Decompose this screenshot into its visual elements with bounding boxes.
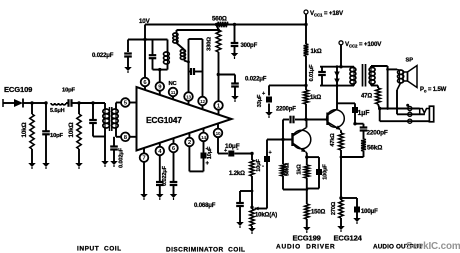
riser pin12 [202,39,204,97]
rail 10V [145,24,217,26]
wire tank1 top [145,39,168,41]
inductor tank1 [167,40,169,53]
node rail b [233,23,236,26]
wire sec bottom [371,85,378,87]
ground [337,226,345,230]
pin 14 bottom [199,133,208,142]
resistor 330 [216,30,221,52]
wire [355,123,364,125]
transformer T1 secondary [115,109,117,128]
transformer T1 primary [104,103,106,109]
pin 9 top [156,82,165,91]
speaker voice coil [388,68,397,70]
svg-text:270Ω: 270Ω [331,201,337,215]
svg-text:50kΩ: 50kΩ [285,162,291,176]
wire [218,52,220,101]
capacitor 2200pF fb [363,124,365,127]
wire 33uF tap [269,84,306,86]
ground [124,67,132,71]
resistor 1.2k [251,154,253,161]
svg-text:-: - [262,164,264,170]
svg-text:47kΩ: 47kΩ [330,133,336,147]
node J3 [77,101,80,104]
wire [305,56,307,90]
pin 5 [121,98,130,107]
svg-text:1kΩ: 1kΩ [310,95,321,101]
node [378,107,381,110]
resistor 47k [339,133,344,150]
svg-text:560Ω: 560Ω [212,16,227,23]
diode ECG109 [14,99,23,107]
resistor 1k emitter [304,165,309,178]
svg-text:AUDIO DRIVER: AUDIO DRIVER [276,244,336,251]
svg-text:5.6μH: 5.6μH [50,108,65,114]
svg-text:1kΩ: 1kΩ [297,164,303,175]
capacitor 10uF coupling2 [266,162,268,209]
ground stem [104,137,106,162]
node [187,61,190,64]
svg-text:330Ω: 330Ω [207,37,213,51]
capacitor 10uF output [228,151,234,157]
terminal Vcc2 [339,41,343,45]
wire [79,102,105,104]
capacitor 100uF emitter [307,156,319,158]
svg-text:10kΩ(A): 10kΩ(A) [255,213,277,219]
wiper arrow [255,207,259,211]
svg-text:150Ω: 150Ω [311,210,326,216]
jack plus mark [406,104,409,107]
wire speaker bottom [397,83,401,90]
transistor Q2 ECG124 [327,110,345,128]
ground [303,227,311,231]
svg-text:DISCRIMINATOR COIL: DISCRIMINATOR COIL [166,247,245,253]
wire base q2 [306,119,328,121]
rail right [227,24,306,26]
node [217,73,220,76]
svg-text:2200pF: 2200pF [367,130,388,137]
node J2b [91,101,94,104]
node [251,190,254,193]
wire q1 collector [306,120,308,128]
jack line c2 [380,108,420,110]
capacitor 10pF shunt [45,103,47,131]
wire pin2 [188,146,190,171]
wire pin1 branch [218,74,235,76]
wire [183,60,185,61]
wire pin7 [143,162,145,194]
input terminal [2,99,4,107]
wire q2 collector [336,86,338,110]
svg-text:ECG199: ECG199 [293,234,321,243]
ground [42,163,50,167]
pin 7 bottom [140,153,149,162]
wire pin9 riser [159,70,161,83]
wire pin8 feed [115,128,117,137]
capacitor 2200pF Q1 [283,119,289,121]
svg-text:10kΩ: 10kΩ [21,122,28,137]
ground [140,194,148,198]
node [336,65,339,68]
pin 11 top [169,88,178,97]
svg-text:+: + [269,150,272,156]
wire slant [177,43,185,50]
capacitor bridge [189,71,191,73]
riser pin1 [217,25,219,31]
wire [32,102,46,104]
node rail a [215,23,218,26]
resistor 10k input B [78,103,80,114]
speaker SP [403,72,408,81]
capacitor 0.022uF pin1 [234,75,236,84]
node [250,152,253,155]
capacitor 100uF out [341,197,357,199]
potentiometer 10k(A) [250,209,254,226]
resistor 150 [306,190,308,205]
wire [305,104,307,120]
resistor 10k input A [31,103,33,114]
feedback 1uF [337,102,355,104]
node J1 [30,101,33,104]
svg-text:100μF: 100μF [323,164,329,180]
svg-text:+: + [224,148,227,154]
svg-text:47Ω: 47Ω [361,94,372,100]
wire [353,66,355,69]
capacitor tank1 [152,40,154,56]
terminal Vcc1 [304,10,308,14]
transformer T2 primary [353,68,355,85]
wire [189,170,203,172]
svg-text:11: 11 [171,90,176,95]
svg-text:SP: SP [406,58,414,64]
svg-text:NC: NC [169,81,178,87]
inductor 5.6uH [51,103,66,105]
capacitor input tank [92,103,94,120]
capacitor 0.022uF pin4 [159,155,161,181]
node [250,206,253,209]
capacitor 0.002uF [113,137,115,146]
node [158,68,161,71]
svg-text:+: + [262,91,265,97]
pin 6 bottom [169,144,178,153]
bridge wire 13-12 [189,38,203,40]
capacitor 10uF pin14 [203,141,205,152]
svg-text:14: 14 [201,135,206,140]
transformer T2 secondary [370,68,372,85]
svg-text:INPUT COIL: INPUT COIL [77,246,122,253]
svg-text:10μF: 10μF [207,146,213,159]
riser pin6 [144,25,146,78]
jack contact c2 [408,106,412,110]
ground [248,228,256,232]
resistor 47 [377,86,379,89]
wire 2200 leg [282,120,284,140]
ground [28,163,36,167]
wire pin10 out [217,137,219,153]
wire sec top [371,65,388,67]
node [386,68,389,71]
transistor Q1 ECG199 [292,130,311,149]
node [305,155,308,158]
inductor tank2 upper [176,30,178,33]
node [339,196,342,199]
ground [101,161,109,165]
svg-text:2200pF: 2200pF [276,107,296,113]
svg-text:0.022μF: 0.022μF [162,165,168,186]
wire Vcc2 [340,45,342,67]
pin 4 bottom [156,147,165,156]
svg-text:ECG109: ECG109 [4,85,32,94]
wire [128,39,145,41]
pin 6 top [141,78,150,87]
wire q1 emitter [306,152,307,153]
node J2 [44,101,47,104]
trimmer element [336,67,338,86]
pin 8 left [121,133,130,142]
pin 12 top [198,97,207,106]
resistor 50k [282,140,284,165]
resistor 56k [361,139,366,151]
pin 10 bottom [214,129,223,138]
node [305,188,308,191]
wire tank1 bottom [153,69,168,71]
node [304,84,307,87]
pin 2 bottom [185,138,194,147]
wire pin5 feed [115,103,117,110]
capacitor 10pF series [66,102,69,104]
ground [231,53,239,57]
svg-text:10kΩ: 10kΩ [68,122,75,137]
svg-text:ECG124: ECG124 [334,234,363,243]
riser pin13 [188,39,190,92]
wire q2 emitter [340,130,342,131]
svg-text:Po = 1.5W: Po = 1.5W [420,87,447,94]
node [339,65,342,68]
ground [75,163,83,167]
jack line c4 [379,109,381,122]
svg-text:0.022μF: 0.022μF [92,53,114,59]
jack plug J1 [420,109,430,115]
node [304,23,307,26]
svg-text:0.002μF: 0.002μF [119,147,125,168]
jack contact c3 [408,112,412,116]
core T2 [362,64,364,87]
wire base q1 [267,139,293,141]
jack contact c4 [408,119,412,123]
svg-text:10pF: 10pF [50,133,64,139]
svg-text:1.2kΩ: 1.2kΩ [229,171,245,177]
capacitor 0.022uF pin3 [173,152,175,181]
svg-text:-: - [237,147,239,153]
svg-text:10: 10 [216,131,221,136]
svg-text:13: 13 [186,95,191,100]
wire tank2 top [177,29,219,31]
node [281,138,284,141]
svg-text:0.01μF: 0.01μF [309,64,315,82]
capacitor 0.01uF [321,67,323,71]
core T1 [109,107,111,131]
node [353,122,356,125]
ground [110,161,118,165]
wire [93,136,105,138]
resistor 270 [339,200,343,218]
node [304,118,307,121]
svg-text:1kΩ: 1kΩ [311,49,322,55]
rail tank top [320,66,354,68]
svg-text:SeekIC.com: SeekIC.com [406,241,460,252]
svg-text:1μF: 1μF [358,110,370,117]
resistor 560 [217,22,229,27]
svg-text:ECG1047: ECG1047 [146,115,182,125]
node [340,156,343,159]
ground [170,194,178,198]
capacitor 0.022uF left [127,40,129,53]
wire Vcc1 [305,14,307,44]
svg-text:300pF: 300pF [241,43,258,49]
svg-text:12: 12 [200,99,205,104]
svg-text:0.068μF: 0.068μF [194,203,216,209]
svg-text:10pF: 10pF [62,88,76,94]
node [143,38,146,41]
op-amp U1 ECG1047 [137,87,232,151]
capacitor 0.068uF [239,191,241,203]
resistor 1k mid [304,90,309,104]
wire 0.068 tap [240,190,252,192]
capacitor 300pF [234,25,236,43]
svg-text:100μF: 100μF [361,209,378,215]
svg-text:-: - [206,147,208,153]
svg-text:56kΩ: 56kΩ [367,145,382,152]
node [386,107,389,110]
ground [236,222,244,226]
ground [265,112,273,116]
svg-text:0.022μF: 0.022μF [245,77,267,83]
pin 13 top [184,92,193,101]
ground [231,96,239,100]
wire 50k join [283,189,307,191]
pin 1 top [214,101,223,110]
inductor tank2 lower [183,50,185,60]
rail tank bottom [320,85,354,87]
ground [156,194,164,198]
ground [353,218,361,222]
resistor 1k top [304,44,309,56]
capacitor 33uF [268,85,270,95]
